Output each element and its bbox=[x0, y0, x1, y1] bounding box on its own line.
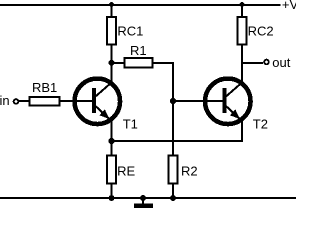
svg-text:out: out bbox=[272, 55, 290, 70]
svg-text:T1: T1 bbox=[123, 116, 138, 131]
svg-text:+V: +V bbox=[282, 0, 296, 12]
svg-text:RB1: RB1 bbox=[32, 80, 57, 95]
svg-text:RC2: RC2 bbox=[248, 24, 274, 39]
svg-text:RC1: RC1 bbox=[117, 24, 143, 39]
svg-text:in: in bbox=[0, 93, 10, 108]
svg-text:R2: R2 bbox=[181, 164, 198, 179]
svg-text:R1: R1 bbox=[130, 43, 147, 58]
svg-text:T2: T2 bbox=[253, 116, 268, 131]
svg-text:RE: RE bbox=[117, 164, 135, 179]
